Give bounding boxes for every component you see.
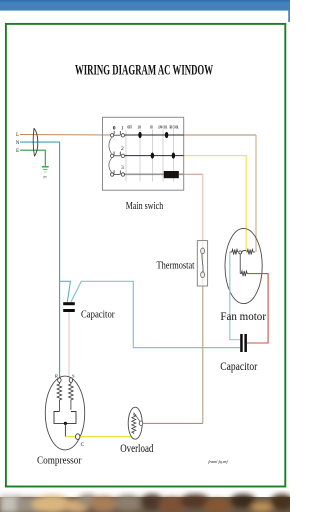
svg-text:Capacitor: Capacitor xyxy=(81,309,115,321)
wire junction down xyxy=(64,423,66,436)
compressor winding S xyxy=(69,382,74,410)
svg-text:C: C xyxy=(81,442,85,448)
main switch box xyxy=(103,117,184,190)
header top darker line xyxy=(0,0,290,2)
overload link to terminal xyxy=(134,413,140,422)
svg-text:OFF: OFF xyxy=(127,125,132,129)
row 3 line xyxy=(125,173,184,175)
overload heater zigzag xyxy=(132,414,136,434)
column line 5 xyxy=(172,130,174,182)
terminal S xyxy=(69,378,72,383)
wire row2 (yellow) switch to fan motor xyxy=(184,156,247,252)
column line 4 xyxy=(162,130,164,182)
terminal C xyxy=(76,434,80,440)
compressor winding R xyxy=(57,382,62,411)
wire capacitor top to fan capacitor (teal/light blue) xyxy=(71,281,240,347)
fan lower lead (red) xyxy=(247,274,268,343)
wire L (brown) plug to main switch xyxy=(20,134,111,137)
row 2 line xyxy=(125,155,184,157)
scrollbar thumb xyxy=(288,11,290,22)
svg-text:2: 2 xyxy=(121,146,124,152)
thermostat internal wire xyxy=(202,242,204,285)
fan winding 1 xyxy=(230,249,238,254)
switch contact pair row1 xyxy=(110,131,124,137)
compressor junction frame xyxy=(54,412,76,424)
svg-text:N: N xyxy=(16,141,20,146)
svg-text:Capacitor: Capacitor xyxy=(220,361,257,373)
wire row3 (rosy) switch to thermostat xyxy=(184,173,203,175)
fan winding left lead (blue) xyxy=(230,252,240,340)
contact block row3 xyxy=(164,171,179,178)
switch contact pair row2 xyxy=(110,152,124,158)
svg-text:LO: LO xyxy=(138,125,142,129)
thermostat box xyxy=(197,241,207,286)
svg-text:L: L xyxy=(16,133,19,138)
svg-text:Fan motor: Fan motor xyxy=(220,310,266,323)
wire compressor to overload (yellow) xyxy=(65,436,131,438)
junction dot row2 HI xyxy=(151,153,154,159)
terminal R xyxy=(58,378,61,383)
wire capacitor to S (pink) xyxy=(68,312,70,378)
svg-text:0: 0 xyxy=(113,125,116,131)
svg-text:Thermostat: Thermostat xyxy=(157,259,195,271)
junction dot row1 LO xyxy=(138,132,141,138)
svg-text:HI COOL: HI COOL xyxy=(170,125,180,129)
column line 1 xyxy=(125,130,127,182)
svg-text:Overload: Overload xyxy=(120,443,153,455)
fan internal vertical xyxy=(239,254,241,274)
fan capacitor plate right xyxy=(244,334,247,352)
column line 3 xyxy=(151,130,153,182)
thermostat contacts xyxy=(201,248,205,278)
svg-text:Compressor: Compressor xyxy=(37,455,82,467)
svg-text:3: 3 xyxy=(121,165,124,171)
header bar xyxy=(0,0,290,11)
row 1 line xyxy=(125,134,184,136)
svg-text:1: 1 xyxy=(121,125,124,131)
plug body (crescent) xyxy=(33,128,34,156)
fan motor circle xyxy=(225,228,262,303)
bottom photo strip xyxy=(0,494,294,512)
fan winding 2 xyxy=(246,249,255,254)
green border frame xyxy=(6,24,285,487)
overload terminal circle xyxy=(139,421,143,425)
wire row1 (brown) switch to fan motor xyxy=(184,134,256,136)
svg-text:Main swich: Main swich xyxy=(126,200,164,212)
junction dot row2 HI COOL xyxy=(172,153,175,159)
mechanical link curve 1-2 xyxy=(109,137,112,153)
fan switch arm xyxy=(242,250,247,252)
svg-text:HI: HI xyxy=(150,125,153,129)
junction dot xyxy=(64,422,67,425)
compressor capacitor plates xyxy=(63,302,75,305)
wire E (green) plug to ground xyxy=(20,150,45,166)
fan capacitor plate left xyxy=(240,334,243,352)
wire N branch to capacitor top (teal V) xyxy=(60,281,71,302)
junction dot row1 LOW COOL xyxy=(165,132,168,138)
svg-text:E: E xyxy=(16,149,19,154)
ground symbol xyxy=(42,167,49,179)
switch contact pair row3 xyxy=(110,170,124,176)
fan junction circle xyxy=(239,251,242,254)
svg-text:WIRING DIAGRAM AC WINDOW: WIRING DIAGRAM AC WINDOW xyxy=(75,63,213,79)
svg-text:S: S xyxy=(72,374,75,379)
svg-text:LOW COOL: LOW COOL xyxy=(158,125,167,129)
svg-text:frami fq.arf: frami fq.arf xyxy=(208,459,228,464)
overload body xyxy=(128,407,142,439)
mechanical link curve 2-3 xyxy=(109,158,112,173)
wire N (teal) plug down to compressor R xyxy=(20,142,60,378)
fan winding 3 xyxy=(240,271,247,276)
wire thermostat to overload (tan) xyxy=(202,286,204,423)
compressor shell xyxy=(45,376,84,450)
column line 2 xyxy=(139,130,141,182)
